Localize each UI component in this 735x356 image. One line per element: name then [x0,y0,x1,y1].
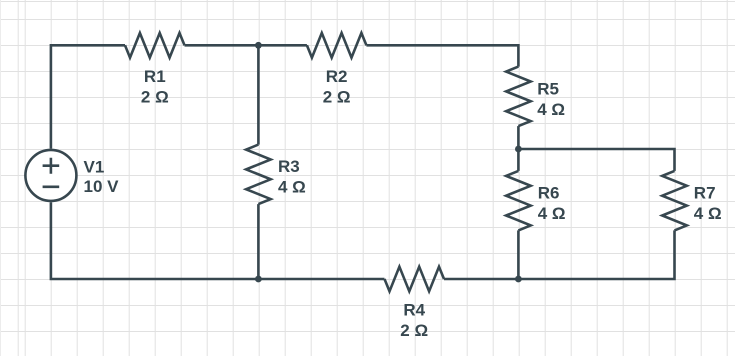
wire [518,149,674,171]
wire [518,230,674,279]
wire [185,44,307,47]
svg-text:10 V: 10 V [84,177,120,196]
svg-text:R1: R1 [144,67,166,86]
svg-text:2 Ω: 2 Ω [400,321,428,340]
svg-text:R3: R3 [278,157,300,176]
resistor R1 [125,33,185,58]
resistor R7 [662,171,687,231]
wire [51,202,259,279]
svg-text:4 Ω: 4 Ω [694,204,722,223]
node junction [255,276,262,283]
wire [258,278,384,281]
wire [51,45,125,148]
wire [444,278,518,281]
resistor R3 [246,145,271,205]
resistor R5 [506,67,531,127]
voltage source V1 [25,150,76,201]
resistor R6 [506,171,531,231]
svg-text:V1: V1 [84,157,105,176]
svg-text:R6: R6 [538,183,560,202]
wire [517,149,520,171]
svg-text:R4: R4 [403,301,425,320]
wire [257,45,260,144]
svg-text:R2: R2 [326,67,348,86]
svg-text:4 Ω: 4 Ω [537,100,565,119]
node junction [255,42,262,49]
resistor R4 [385,267,445,292]
resistor R2 [307,33,367,58]
svg-text:R7: R7 [694,183,716,202]
wire [366,45,518,66]
wire [517,126,520,149]
wire [517,230,520,279]
node junction [515,146,522,153]
node junction [515,276,522,283]
svg-text:2 Ω: 2 Ω [141,88,169,107]
wire [257,204,260,279]
svg-text:R5: R5 [537,80,559,99]
svg-text:2 Ω: 2 Ω [323,87,351,106]
svg-text:4 Ω: 4 Ω [278,177,306,196]
svg-text:4 Ω: 4 Ω [538,204,566,223]
